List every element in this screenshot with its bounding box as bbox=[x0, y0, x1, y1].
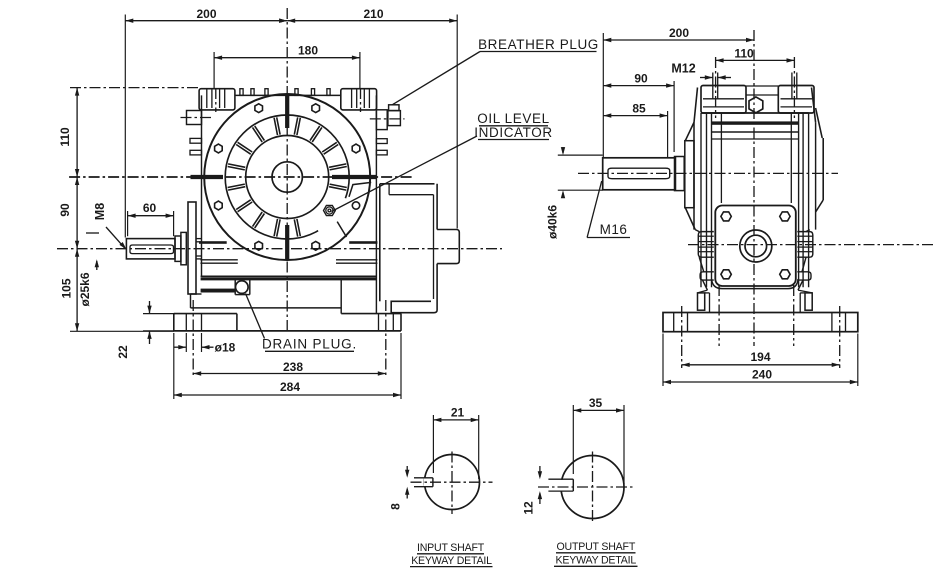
svg-text:200: 200 bbox=[196, 7, 216, 21]
svg-text:OUTPUT SHAFT: OUTPUT SHAFT bbox=[556, 541, 635, 553]
svg-text:180: 180 bbox=[298, 44, 318, 58]
svg-text:210: 210 bbox=[363, 7, 383, 21]
svg-text:85: 85 bbox=[632, 102, 646, 116]
svg-text:M8: M8 bbox=[93, 203, 107, 220]
svg-text:105: 105 bbox=[60, 278, 74, 298]
svg-text:240: 240 bbox=[752, 368, 772, 382]
svg-text:M12: M12 bbox=[671, 62, 695, 76]
svg-text:90: 90 bbox=[634, 72, 648, 86]
svg-text:ø25k6: ø25k6 bbox=[78, 272, 92, 306]
svg-text:90: 90 bbox=[58, 203, 72, 217]
svg-text:60: 60 bbox=[143, 201, 157, 215]
svg-text:200: 200 bbox=[669, 26, 689, 40]
svg-text:M16: M16 bbox=[600, 222, 628, 237]
svg-text:BREATHER PLUG: BREATHER PLUG bbox=[478, 37, 599, 52]
svg-text:OIL LEVEL: OIL LEVEL bbox=[477, 111, 549, 126]
svg-text:ø18: ø18 bbox=[215, 341, 236, 355]
svg-text:22: 22 bbox=[116, 345, 130, 359]
svg-text:284: 284 bbox=[280, 380, 300, 394]
svg-text:KEYWAY DETAIL: KEYWAY DETAIL bbox=[411, 555, 492, 567]
svg-text:110: 110 bbox=[58, 127, 72, 147]
svg-text:KEYWAY DETAIL: KEYWAY DETAIL bbox=[555, 555, 636, 567]
svg-text:110: 110 bbox=[734, 47, 754, 61]
svg-text:ø40k6: ø40k6 bbox=[546, 205, 560, 239]
svg-text:35: 35 bbox=[589, 396, 603, 410]
svg-text:194: 194 bbox=[750, 350, 770, 364]
svg-text:DRAIN PLUG.: DRAIN PLUG. bbox=[262, 337, 357, 352]
svg-text:238: 238 bbox=[283, 360, 303, 374]
svg-text:INPUT SHAFT: INPUT SHAFT bbox=[417, 542, 485, 554]
svg-text:8: 8 bbox=[389, 503, 403, 510]
svg-text:INDICATOR: INDICATOR bbox=[474, 125, 552, 140]
svg-text:21: 21 bbox=[451, 406, 465, 420]
svg-text:12: 12 bbox=[522, 501, 536, 515]
